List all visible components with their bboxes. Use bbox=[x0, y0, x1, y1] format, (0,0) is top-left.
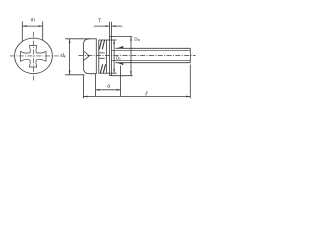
flat washer outline bbox=[110, 36, 112, 75]
D dimension extension line bottom bbox=[112, 75, 133, 77]
D1 dimension arrow bottom bbox=[113, 69, 115, 73]
dk dimension line bbox=[69, 39, 71, 75]
svg-text:D1: D1 bbox=[116, 55, 121, 61]
svg-text:T: T bbox=[98, 18, 101, 24]
thread root line bottom bbox=[112, 59, 191, 61]
svg-text:a: a bbox=[107, 84, 110, 90]
T dimension extension lines bbox=[110, 22, 112, 37]
length dimension arrow left bbox=[83, 96, 87, 98]
D1 dimension extension stub top bbox=[106, 39, 116, 41]
dk dimension arrow top bbox=[69, 39, 71, 43]
D1 dimension arrow top bbox=[113, 40, 115, 44]
D dimension extension line top bbox=[112, 35, 133, 37]
front view horizontal center line bbox=[10, 55, 62, 57]
D1 dimension line bbox=[113, 40, 115, 73]
side view axis center line bbox=[79, 55, 196, 57]
length dimension extension line right bbox=[189, 65, 191, 99]
svg-text:Dw: Dw bbox=[134, 36, 140, 42]
head front view circle bbox=[15, 38, 53, 74]
dk dimension extension line bottom bbox=[65, 74, 84, 76]
pan head side profile bbox=[83, 39, 96, 74]
a dimension extension line right bbox=[120, 66, 122, 97]
T dimension arrow left (pointing right) bbox=[106, 25, 110, 27]
T dimension line with outside tails bbox=[94, 25, 123, 27]
a dimension arrow right bbox=[117, 89, 121, 91]
m dimension line bbox=[22, 25, 42, 27]
dk dimension arrow bottom bbox=[69, 71, 71, 75]
spring washer outline bbox=[99, 40, 107, 73]
svg-text:dk: dk bbox=[61, 53, 66, 59]
m dimension arrow left bbox=[22, 25, 26, 27]
spring washer inner hole lines bbox=[99, 53, 105, 58]
thread root line top bbox=[112, 50, 191, 52]
spring washer split lines top bbox=[99, 40, 104, 49]
D dimension arrow top bbox=[130, 36, 132, 40]
thread major line top bbox=[115, 47, 190, 49]
spring washer split lines bottom bbox=[100, 64, 105, 73]
D dimension arrow bottom bbox=[130, 71, 132, 75]
a dimension line bbox=[96, 89, 121, 91]
thread lead-in wedge bottom bbox=[116, 63, 123, 66]
D1 dimension extension stub bottom bbox=[106, 72, 116, 74]
shaft end line bbox=[189, 48, 191, 63]
length dimension extension line left bbox=[82, 75, 84, 98]
recess V-notch in side view bbox=[84, 51, 89, 60]
m dimension extension line right bbox=[42, 21, 44, 40]
m dimension arrow right bbox=[39, 25, 43, 27]
svg-text:m: m bbox=[31, 18, 35, 24]
a dimension extension line left bbox=[95, 74, 97, 97]
thread major line bottom bbox=[115, 62, 190, 64]
cross recess outline bbox=[20, 46, 46, 67]
T dimension arrow right (pointing left) bbox=[112, 25, 116, 27]
a dimension arrow left bbox=[96, 89, 100, 91]
thread lead-in wedge top bbox=[116, 46, 123, 49]
length dimension line bbox=[83, 96, 190, 98]
D dimension line bbox=[130, 36, 132, 75]
m dimension extension line left bbox=[21, 21, 23, 41]
dk dimension extension line top bbox=[65, 38, 89, 40]
front view vertical center line bbox=[33, 32, 35, 81]
length dimension arrow right bbox=[186, 96, 190, 98]
